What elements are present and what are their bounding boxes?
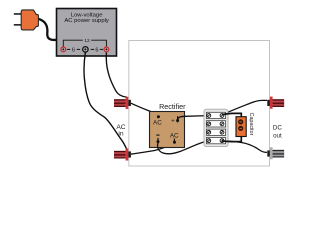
- svg-text:Capacitor: Capacitor: [248, 113, 254, 136]
- plug P1 body: [21, 10, 38, 30]
- wire rectifier - to strip row4: [158, 141, 208, 154]
- binding post J2 lower AC-in (red): [114, 148, 131, 160]
- TB1 row 2: [206, 121, 225, 127]
- terminal 12V right (red): [104, 47, 109, 52]
- U1 - pin bottom-left: [156, 135, 159, 136]
- TB1 row 3: [206, 129, 225, 135]
- svg-text:in: in: [118, 131, 123, 138]
- capacitor C1 body: [236, 117, 246, 137]
- wire black terminal to lower AC-in post: [84, 52, 127, 149]
- svg-text:6: 6: [95, 48, 98, 54]
- plug P1 prong upper: [14, 13, 22, 15]
- dash: [77, 49, 80, 50]
- TB1 screws: [207, 114, 224, 143]
- svg-text:6: 6: [72, 48, 75, 54]
- wire upper post to rectifier AC lead: [131, 103, 158, 116]
- wire strip row4 to DC- post: [223, 141, 267, 152]
- dash: [100, 49, 103, 50]
- capacitor C1 bottom lead: [222, 137, 241, 142]
- power supply PS1 box: [57, 9, 117, 57]
- wire red terminal to upper AC-in post: [106, 52, 126, 97]
- terminal 12V left (red): [61, 47, 66, 52]
- wire rectifier + to strip row1: [178, 116, 208, 121]
- C1 polarity mark upper: [238, 119, 243, 124]
- wire lower post to rectifier AC lead: [131, 143, 174, 154]
- svg-text:AC: AC: [153, 120, 162, 127]
- TB1 screw slots: [208, 114, 224, 142]
- terminal strip TB1: [204, 109, 228, 146]
- TB1 row 4: [206, 138, 225, 144]
- svg-text:Rectifier: Rectifier: [159, 102, 186, 111]
- svg-text:DC: DC: [273, 125, 282, 132]
- plug P1 prong lower: [14, 24, 22, 26]
- power cord wire: [38, 19, 57, 40]
- svg-text:AC power supply: AC power supply: [64, 18, 109, 24]
- 12V bracket line: [63, 40, 106, 47]
- wire strip row1 to DC+ post: [223, 100, 267, 114]
- svg-text:12: 12: [84, 38, 90, 44]
- binding post J1 upper AC-in (red): [114, 97, 131, 109]
- binding post J4 DC- (gray): [267, 147, 284, 159]
- svg-text:+: +: [171, 117, 175, 124]
- capacitor C1 top lead: [222, 113, 241, 117]
- svg-text:AC: AC: [170, 132, 179, 139]
- C1 polarity mark lower: [238, 126, 243, 131]
- svg-text:out: out: [273, 133, 282, 140]
- project board: [129, 41, 270, 167]
- TB1 row 1: [206, 112, 225, 118]
- dash: [67, 49, 70, 50]
- rectifier U1 body: [150, 112, 185, 148]
- dash: [91, 49, 94, 50]
- terminal center 0V (black): [83, 47, 88, 52]
- binding post J3 DC+ (red): [267, 97, 284, 109]
- U1 AC pin top-left: [157, 115, 160, 118]
